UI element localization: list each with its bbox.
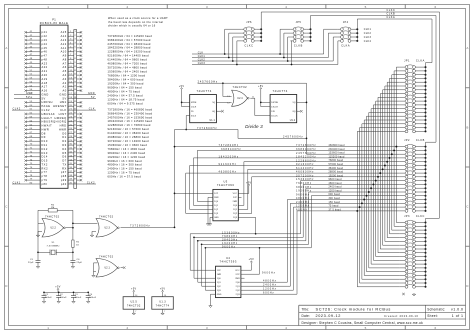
svg-text:19200Hz / 64 = 300 baud: 19200Hz / 64 = 300 baud: [108, 82, 144, 86]
svg-text:74HCT02: 74HCT02: [127, 305, 141, 308]
svg-text:Date:: Date:: [302, 314, 311, 318]
svg-text:X1: X1: [52, 242, 56, 244]
svg-text:HM1: HM1: [60, 100, 67, 104]
svg-text:11CLK: 11CLK: [271, 115, 278, 117]
svg-text:A14: A14: [61, 34, 67, 38]
svg-text:921600Hz: 921600Hz: [219, 163, 237, 166]
svg-text:HIORQ: HIORQ: [56, 120, 67, 124]
svg-text:p48: p48: [42, 57, 48, 61]
svg-text:230400 baud: 230400 baud: [329, 149, 346, 151]
svg-text:2400Hz / 16 = 150 baud: 2400Hz / 16 = 150 baud: [108, 167, 143, 171]
svg-text:HWR: HWR: [42, 128, 50, 132]
svg-text:1228800Hz / 16 = 76800 baud: 1228800Hz / 16 = 76800 baud: [108, 123, 151, 127]
svg-text:1843200Hz: 1843200Hz: [296, 156, 316, 159]
svg-text:+5V: +5V: [160, 288, 166, 291]
svg-text:VCC: VCC: [235, 270, 240, 272]
svg-text:CLKA: CLKA: [387, 16, 396, 19]
svg-text:1200Hz: 1200Hz: [263, 288, 277, 291]
svg-text:A12: A12: [61, 42, 67, 46]
svg-text:R2: R2: [51, 204, 55, 206]
svg-text:115200 baud: 115200 baud: [329, 156, 345, 158]
svg-text:U3: U3: [224, 179, 228, 183]
svg-text:1843200Hz / 64 = 28800 baud: 1843200Hz / 64 = 28800 baud: [108, 46, 151, 50]
svg-text:1CP: 1CP: [214, 193, 219, 195]
svg-text:76800Hz / 64 = 1200 baud: 76800Hz / 64 = 1200 baud: [108, 74, 146, 78]
svg-text:300 baud: 300 baud: [329, 198, 341, 200]
svg-text:p80: p80: [42, 182, 48, 186]
svg-text:A17: A17: [42, 85, 48, 89]
svg-text:CLKC: CLKC: [416, 215, 425, 218]
svg-text:600Hz / 16 = 37.5 baud: 600Hz / 16 = 37.5 baud: [108, 175, 142, 179]
svg-text:p79: p79: [42, 178, 48, 182]
svg-text:5: 5: [365, 5, 367, 9]
svg-text:A23: A23: [42, 61, 48, 65]
svg-text:13CLR: 13CLR: [271, 107, 278, 109]
svg-text:7372800Hz: 7372800Hz: [296, 144, 316, 147]
svg-text:A6: A6: [63, 65, 67, 69]
svg-text:JP2: JP2: [404, 139, 410, 142]
svg-text:22pF: 22pF: [77, 262, 83, 264]
svg-text:1M: 1M: [51, 207, 54, 209]
svg-text:HRD: HRD: [60, 124, 67, 128]
svg-text:RX2: RX2: [42, 166, 49, 170]
svg-text:Created: 2023-09-10: Created: 2023-09-10: [384, 314, 418, 318]
svg-text:p46: p46: [42, 50, 48, 54]
svg-text:HWAIT: HWAIT: [42, 124, 53, 128]
svg-text:A4: A4: [63, 73, 67, 77]
svg-text:38400 baud: 38400 baud: [329, 168, 344, 170]
svg-text:CLK4: CLK4: [364, 40, 372, 43]
svg-text:76800 baud: 76800 baud: [329, 160, 344, 162]
svg-text:2457600Hz: 2457600Hz: [198, 80, 218, 83]
svg-text:38400Hz: 38400Hz: [296, 186, 312, 189]
svg-text:2023-09-12: 2023-09-12: [316, 314, 341, 318]
svg-text:2CP: 2CP: [236, 274, 241, 276]
svg-text:HBUSRQ: HBUSRQ: [42, 120, 56, 124]
svg-text:100nF: 100nF: [60, 297, 67, 299]
svg-text:D8: D8: [42, 131, 46, 135]
svg-text:HRESET: HRESET: [53, 104, 67, 108]
svg-text:13: 13: [227, 96, 229, 98]
svg-text:307200Hz / 16 = 19200 baud: 307200Hz / 16 = 19200 baud: [108, 139, 150, 143]
svg-text:600Hz / 64 = 9.375 baud: 600Hz / 64 = 9.375 baud: [108, 102, 144, 106]
svg-text:3686400Hz: 3686400Hz: [296, 148, 316, 151]
svg-text:1843200Hz: 1843200Hz: [219, 156, 239, 159]
svg-text:p39: p39: [61, 178, 67, 182]
svg-text:74HCT393: 74HCT393: [219, 260, 236, 264]
svg-text:600 baud: 600 baud: [329, 194, 341, 196]
svg-text:2D: 2D: [191, 111, 194, 113]
svg-text:RX: RX: [62, 166, 67, 170]
svg-text:Title:: Title:: [302, 307, 310, 311]
svg-text:38400Hz / 64 = 600 baud: 38400Hz / 64 = 600 baud: [108, 78, 144, 82]
svg-text:1MR: 1MR: [217, 274, 222, 276]
svg-text:600Hz: 600Hz: [263, 292, 274, 295]
svg-text:A18: A18: [42, 81, 48, 85]
svg-text:CLK1: CLK1: [364, 28, 372, 31]
svg-text:Sheet:: Sheet:: [427, 314, 438, 318]
svg-text:2400Hz: 2400Hz: [263, 284, 277, 287]
svg-text:6Q: 6Q: [212, 111, 215, 113]
svg-text:D6: D6: [62, 155, 66, 159]
svg-text:p47: p47: [42, 54, 48, 58]
svg-text:D2: D2: [62, 139, 66, 143]
svg-text:TX: TX: [62, 163, 66, 167]
svg-text:1K: 1K: [76, 245, 79, 247]
svg-text:divider which is usually 64 or: divider which is usually 64 or 16: [108, 24, 156, 28]
svg-text:HBUSAK: HBUSAK: [42, 112, 56, 116]
svg-text:D5: D5: [62, 151, 66, 155]
svg-text:A0: A0: [63, 89, 67, 93]
svg-text:A3: A3: [63, 77, 67, 81]
svg-text:U2.3: U2.3: [104, 228, 110, 230]
svg-text:74HCT02: 74HCT02: [99, 214, 114, 218]
svg-text:D1: D1: [62, 135, 66, 139]
svg-text:TX2: TX2: [42, 163, 48, 167]
svg-text:D10: D10: [42, 139, 48, 143]
svg-text:1CLR: 1CLR: [191, 107, 197, 109]
svg-text:B: B: [5, 125, 7, 129]
svg-text:CLK: CLK: [60, 108, 67, 112]
svg-text:2457600Hz: 2457600Hz: [296, 152, 316, 155]
svg-text:GND: GND: [88, 92, 95, 95]
svg-text:6: 6: [435, 326, 437, 330]
svg-text:CLKA: CLKA: [416, 59, 425, 62]
svg-text:76800Hz: 76800Hz: [296, 182, 312, 185]
svg-text:HWR: HWR: [59, 128, 67, 132]
svg-text:8Q: 8Q: [293, 111, 296, 113]
svg-text:1200Hz / 64 = 18.75 baud: 1200Hz / 64 = 18.75 baud: [108, 98, 145, 102]
svg-text:Designer: Stephen C Cousins, S: Designer: Stephen C Cousins, Small Compu…: [302, 321, 424, 325]
svg-text:+5V: +5V: [249, 258, 255, 261]
svg-text:1228800Hz / 64 = 19200 baud: 1228800Hz / 64 = 19200 baud: [108, 50, 151, 54]
svg-text:A21: A21: [42, 69, 48, 73]
svg-text:CLK2: CLK2: [87, 181, 95, 184]
svg-text:JP3: JP3: [404, 215, 410, 218]
svg-text:2457600Hz / 16 = 153600 baud: 2457600Hz / 16 = 153600 baud: [108, 115, 153, 119]
svg-text:A7: A7: [63, 61, 67, 65]
svg-text:2400 baud: 2400 baud: [329, 187, 343, 189]
svg-text:D12: D12: [42, 147, 48, 151]
svg-text:12: 12: [227, 102, 229, 104]
svg-text:921600Hz / 64 = 14400 baud: 921600Hz / 64 = 14400 baud: [108, 54, 150, 58]
svg-text:p41: p41: [42, 30, 48, 34]
svg-text:74HCT74: 74HCT74: [197, 89, 212, 93]
svg-text:p37: p37: [61, 170, 67, 174]
svg-text:2457600Hz: 2457600Hz: [283, 136, 303, 139]
svg-text:CLKB: CLKB: [416, 139, 425, 142]
svg-text:22pF: 22pF: [28, 262, 34, 264]
svg-text:28800 baud: 28800 baud: [329, 172, 344, 174]
svg-text:150 baud: 150 baud: [329, 202, 341, 204]
svg-text:10PRE: 10PRE: [271, 102, 278, 104]
svg-text:SC726: Clock module for RCBus: SC726: Clock module for RCBus: [316, 307, 392, 312]
svg-text:A19: A19: [42, 77, 48, 81]
svg-text:U1.1: U1.1: [209, 120, 215, 122]
svg-text:7: 7: [135, 311, 136, 313]
svg-text:9600Hz: 9600Hz: [262, 272, 276, 275]
svg-text:U2.1: U2.1: [104, 268, 110, 270]
svg-text:460800Hz / 16 = 28800 baud: 460800Hz / 16 = 28800 baud: [108, 135, 150, 139]
svg-text:p43: p43: [42, 38, 48, 42]
svg-text:460800Hz / 64 = 7200 baud: 460800Hz / 64 = 7200 baud: [108, 62, 148, 66]
svg-text:2: 2: [127, 5, 129, 9]
svg-text:D15: D15: [42, 159, 48, 163]
svg-text:4800 baud: 4800 baud: [329, 183, 343, 185]
svg-text:7372800Hz: 7372800Hz: [219, 144, 239, 147]
svg-text:100nF: 100nF: [45, 297, 52, 299]
svg-text:1 of 1: 1 of 1: [452, 314, 464, 318]
svg-text:19200Hz / 16 = 1200 baud: 19200Hz / 16 = 1200 baud: [108, 155, 146, 159]
svg-text:3: 3: [206, 326, 208, 330]
svg-text:CLK3: CLK3: [198, 62, 206, 65]
svg-text:p77: p77: [42, 170, 48, 174]
svg-text:460800Hz: 460800Hz: [296, 171, 314, 174]
svg-text:P1: P1: [52, 17, 56, 21]
svg-text:HINT: HINT: [59, 112, 67, 116]
svg-text:A11: A11: [61, 46, 67, 50]
svg-text:3686400Hz: 3686400Hz: [221, 148, 241, 151]
svg-text:CLKA: CLKA: [341, 45, 350, 48]
svg-text:74HCT02: 74HCT02: [233, 85, 248, 89]
svg-text:19200Hz: 19200Hz: [296, 190, 312, 193]
svg-text:D0: D0: [62, 131, 66, 135]
svg-text:U4: U4: [226, 256, 230, 260]
svg-text:153600Hz: 153600Hz: [296, 178, 314, 181]
svg-text:4800Hz: 4800Hz: [263, 280, 277, 283]
svg-text:614400Hz / 16 = 38400 baud: 614400Hz / 16 = 38400 baud: [108, 131, 150, 135]
svg-text:A9: A9: [63, 54, 67, 58]
svg-text:A: A: [5, 46, 7, 50]
svg-text:1200Hz: 1200Hz: [296, 205, 310, 208]
svg-text:D11: D11: [42, 143, 48, 147]
svg-text:1: 1: [47, 5, 49, 9]
svg-text:5Q: 5Q: [212, 102, 215, 104]
svg-text:3686400Hz / 64 = 57600 baud: 3686400Hz / 64 = 57600 baud: [108, 38, 151, 42]
svg-text:D9: D9: [42, 135, 46, 139]
svg-text:CLKB: CLKB: [294, 45, 303, 48]
svg-text:CLK2: CLK2: [364, 32, 372, 35]
svg-text:12D: 12D: [271, 111, 275, 113]
svg-text:Schematic:: Schematic:: [427, 307, 445, 311]
svg-text:9600 baud: 9600 baud: [329, 179, 343, 181]
svg-text:HHALT: HHALT: [42, 116, 53, 120]
svg-text:1200 baud: 1200 baud: [329, 191, 343, 193]
svg-text:U2.2: U2.2: [50, 228, 56, 230]
svg-text:JP6: JP6: [246, 21, 252, 24]
svg-text:74HCT02: 74HCT02: [99, 254, 114, 258]
svg-text:6: 6: [435, 5, 437, 9]
svg-text:7372800Hz: 7372800Hz: [197, 127, 217, 130]
svg-text:153600Hz / 64 = 2400 baud: 153600Hz / 64 = 2400 baud: [108, 70, 148, 74]
svg-text:37.5 baud: 37.5 baud: [329, 209, 342, 211]
svg-text:VCC: VCC: [233, 193, 238, 195]
svg-text:CLK2: CLK2: [42, 108, 51, 112]
svg-text:A16: A16: [42, 89, 48, 93]
svg-text:1CP: 1CP: [217, 270, 222, 272]
svg-text:D13: D13: [42, 151, 48, 155]
svg-text:4: 4: [285, 326, 287, 330]
svg-text:3: 3: [206, 5, 208, 9]
svg-text:5V: 5V: [91, 96, 95, 99]
svg-text:5: 5: [365, 326, 367, 330]
svg-text:100nF: 100nF: [89, 297, 96, 299]
svg-text:p45: p45: [42, 46, 48, 50]
svg-text:+5V: +5V: [55, 286, 61, 289]
svg-text:1228800Hz: 1228800Hz: [296, 159, 316, 162]
svg-text:14: 14: [135, 295, 138, 297]
svg-text:CLK2: CLK2: [13, 108, 21, 111]
svg-text:307200Hz: 307200Hz: [296, 174, 314, 177]
svg-text:JP5: JP5: [296, 21, 302, 24]
svg-text:GND: GND: [59, 92, 66, 96]
svg-text:U2.4: U2.4: [237, 98, 243, 100]
svg-text:A8: A8: [63, 57, 67, 61]
svg-text:HRFSH: HRFSH: [42, 100, 53, 104]
svg-text:CLK1: CLK1: [13, 181, 21, 184]
svg-text:JP1: JP1: [404, 59, 410, 62]
svg-text:1: 1: [47, 326, 49, 330]
svg-text:U2.5: U2.5: [130, 300, 137, 303]
svg-text:p38: p38: [61, 174, 67, 178]
svg-text:75 baud: 75 baud: [329, 206, 340, 208]
svg-text:921600Hz: 921600Hz: [296, 163, 314, 166]
svg-text:p78: p78: [42, 174, 48, 178]
svg-text:5V: 5V: [42, 96, 46, 100]
svg-text:p44: p44: [42, 42, 48, 46]
svg-text:U1.3: U1.3: [159, 300, 166, 303]
svg-text:PAGE: PAGE: [42, 104, 51, 108]
svg-text:76800Hz / 16 = 4800 baud: 76800Hz / 16 = 4800 baud: [108, 147, 146, 151]
svg-text:19200 baud: 19200 baud: [329, 175, 344, 177]
svg-text:When used as a clock source fo: When used as a clock source for a UART: [108, 16, 168, 20]
svg-text:HMREQ: HMREQ: [55, 116, 67, 120]
svg-text:RCBUS-80 MALE: RCBUS-80 MALE: [40, 21, 69, 25]
svg-text:A: A: [466, 46, 468, 50]
svg-text:A15: A15: [61, 30, 67, 34]
svg-text:921600Hz / 16 = 57600 baud: 921600Hz / 16 = 57600 baud: [108, 127, 150, 131]
svg-text:GND: GND: [214, 217, 219, 219]
svg-text:+5V: +5V: [246, 181, 252, 184]
svg-text:9600Hz: 9600Hz: [296, 193, 310, 196]
svg-text:CLK: CLK: [89, 108, 95, 111]
svg-text:307200Hz / 64 = 4800 baud: 307200Hz / 64 = 4800 baud: [108, 66, 148, 70]
svg-text:the baud rate depends on the i: the baud rate depends on the internal: [108, 20, 163, 24]
svg-text:74HCT393: 74HCT393: [217, 183, 234, 187]
svg-text:A5: A5: [63, 69, 67, 73]
svg-text:A22: A22: [42, 65, 48, 69]
svg-text:4800Hz / 64 = 75 baud: 4800Hz / 64 = 75 baud: [108, 90, 141, 94]
svg-text:p40: p40: [61, 182, 67, 186]
svg-text:74HCT74: 74HCT74: [273, 89, 288, 93]
svg-text:38400Hz / 16 = 2400 baud: 38400Hz / 16 = 2400 baud: [108, 151, 146, 155]
svg-text:D3: D3: [62, 143, 66, 147]
svg-text:A20: A20: [42, 73, 48, 77]
svg-text:p42: p42: [42, 34, 48, 38]
svg-text:7372800Hz / 16 = 460800 baud: 7372800Hz / 16 = 460800 baud: [108, 107, 153, 111]
svg-text:5V: 5V: [63, 96, 67, 100]
svg-text:1200Hz / 16 = 75 baud: 1200Hz / 16 = 75 baud: [108, 171, 141, 175]
svg-text:JP4: JP4: [343, 21, 349, 24]
svg-text:+5V: +5V: [131, 288, 137, 291]
svg-text:2400Hz: 2400Hz: [296, 201, 310, 204]
svg-text:A2: A2: [63, 81, 67, 85]
svg-text:U1.2: U1.2: [290, 120, 296, 122]
svg-text:GND: GND: [217, 294, 222, 296]
svg-text:4: 4: [285, 5, 287, 9]
svg-text:3686400Hz / 16 = 230400 baud: 3686400Hz / 16 = 230400 baud: [108, 111, 153, 115]
svg-text:A10: A10: [61, 50, 67, 54]
svg-text:614400Hz / 64 = 9600 baud: 614400Hz / 64 = 9600 baud: [108, 58, 148, 62]
svg-text:7: 7: [164, 311, 165, 313]
svg-text:153600Hz / 16 = 9600 baud: 153600Hz / 16 = 9600 baud: [108, 143, 148, 147]
svg-text:D7: D7: [62, 159, 66, 163]
svg-text:460800 baud: 460800 baud: [329, 145, 346, 147]
svg-text:CLKC: CLKC: [244, 45, 253, 48]
svg-text:9600Hz: 9600Hz: [222, 245, 236, 248]
svg-text:460800Hz: 460800Hz: [219, 171, 237, 174]
svg-text:74HCT74: 74HCT74: [156, 305, 170, 308]
svg-text:GND: GND: [42, 92, 49, 96]
svg-text:A13: A13: [61, 38, 67, 42]
svg-text:v1.0.0: v1.0.0: [451, 308, 464, 312]
svg-text:2CP: 2CP: [233, 197, 238, 199]
svg-text:1MR: 1MR: [214, 197, 219, 199]
svg-text:+5V: +5V: [258, 85, 264, 88]
svg-text:7372800Hz: 7372800Hz: [130, 225, 150, 228]
svg-text:3CLK: 3CLK: [191, 115, 197, 117]
svg-text:2MR: 2MR: [235, 278, 240, 280]
svg-text:7372800Hz / 64 = 115200 baud: 7372800Hz / 64 = 115200 baud: [108, 34, 153, 38]
svg-text:2400Hz / 64 = 37.5 baud: 2400Hz / 64 = 37.5 baud: [108, 94, 144, 98]
svg-text:Divide 3: Divide 3: [245, 124, 263, 129]
svg-text:+5V: +5V: [179, 85, 185, 88]
svg-text:B: B: [466, 125, 468, 129]
svg-text:7.3728MHz: 7.3728MHz: [47, 245, 60, 247]
svg-text:A1: A1: [63, 85, 67, 89]
svg-text:4800Hz / 16 = 300 baud: 4800Hz / 16 = 300 baud: [108, 163, 143, 167]
svg-text:2MR: 2MR: [233, 201, 238, 203]
svg-text:614400Hz: 614400Hz: [296, 167, 314, 170]
svg-text:14: 14: [164, 295, 167, 297]
svg-text:4PRE: 4PRE: [191, 102, 197, 104]
svg-text:100nF: 100nF: [75, 297, 82, 299]
svg-text:9Q: 9Q: [293, 102, 296, 104]
svg-text:57600 baud: 57600 baud: [329, 164, 344, 166]
svg-text:4800Hz: 4800Hz: [296, 197, 310, 200]
svg-text:2457600Hz / 64 = 38400 baud: 2457600Hz / 64 = 38400 baud: [108, 42, 151, 46]
svg-text:1843200Hz / 16 = 115200 baud: 1843200Hz / 16 = 115200 baud: [108, 119, 153, 123]
svg-text:D4: D4: [62, 147, 66, 151]
svg-text:2: 2: [127, 326, 129, 330]
svg-text:D14: D14: [42, 155, 48, 159]
svg-text:9600Hz / 16 = 600 baud: 9600Hz / 16 = 600 baud: [108, 159, 143, 163]
svg-text:CLK3: CLK3: [364, 36, 372, 39]
svg-text:153600 baud: 153600 baud: [329, 153, 346, 155]
svg-text:9600Hz / 64 = 150 baud: 9600Hz / 64 = 150 baud: [108, 86, 143, 90]
svg-text:74HCT02: 74HCT02: [45, 214, 60, 218]
